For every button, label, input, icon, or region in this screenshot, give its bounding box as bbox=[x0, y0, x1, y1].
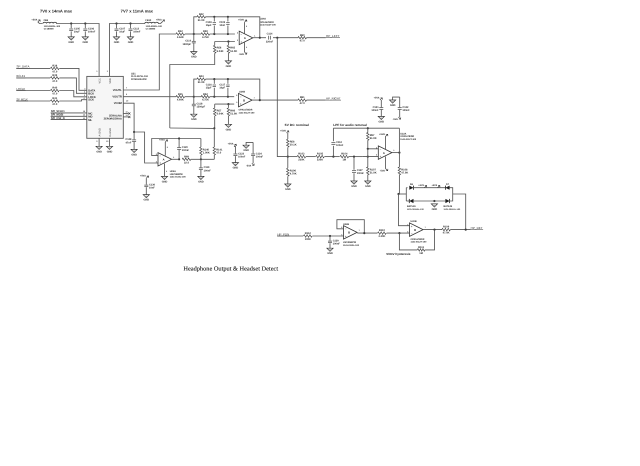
svg-text:47.0: 47.0 bbox=[52, 70, 58, 73]
wire BCLK1 to R39 bbox=[16, 77, 50, 79]
resistor R56 bbox=[213, 45, 223, 53]
node LPF3 bbox=[367, 156, 369, 158]
power flag +5VA (divider) bbox=[280, 129, 289, 133]
svg-text:47.0: 47.0 bbox=[300, 102, 306, 105]
wire A-GND pin bbox=[98, 138, 100, 146]
power rail 2 title bbox=[121, 8, 154, 13]
wire to C129 bbox=[329, 236, 331, 241]
svg-text:1: 1 bbox=[173, 156, 174, 159]
resistor R103 bbox=[297, 153, 306, 162]
resistor R105 bbox=[316, 153, 325, 162]
svg-text:ZEROR/ZEROA: ZEROR/ZEROA bbox=[104, 118, 122, 121]
node VCOM ref bbox=[213, 127, 215, 129]
junction bbox=[367, 127, 369, 129]
svg-text:+: + bbox=[240, 40, 242, 44]
svg-text:PCM5102APW: PCM5102APW bbox=[131, 78, 147, 81]
net label SPI_MOSI bbox=[51, 114, 64, 117]
svg-text:100nF: 100nF bbox=[336, 144, 344, 147]
svg-text:2: 2 bbox=[107, 70, 109, 73]
svg-text:10uF: 10uF bbox=[119, 31, 125, 34]
ground (U23A) bbox=[161, 176, 167, 183]
junction bbox=[129, 22, 131, 24]
svg-text:1500pF: 1500pF bbox=[182, 43, 191, 46]
wire C112 to node LPF1 bbox=[332, 146, 334, 157]
ground (C110) bbox=[191, 52, 197, 59]
ferrite bead FB6 bbox=[43, 19, 61, 31]
op-amp U24B bbox=[236, 93, 254, 106]
junction bbox=[213, 78, 215, 80]
svg-text:7V0 x 14mA max: 7V0 x 14mA max bbox=[40, 8, 73, 13]
ground (C119) bbox=[198, 176, 204, 183]
wire R35 to node R1 bbox=[185, 96, 194, 98]
ground (C122) bbox=[390, 100, 396, 107]
resistor R66 bbox=[227, 108, 237, 116]
svg-text:U22B: U22B bbox=[411, 220, 417, 223]
wire VOUTL to R32 bbox=[123, 34, 176, 90]
capacitor C122 bbox=[398, 106, 410, 112]
wire D6 to D7 rail bbox=[413, 187, 445, 189]
wire R97 to U22A -in bbox=[368, 140, 379, 149]
node hyst bbox=[398, 232, 400, 234]
op-amp U22A labels bbox=[400, 132, 417, 141]
wire D7 to right bracket bbox=[449, 188, 452, 194]
svg-text:D6: D6 bbox=[410, 183, 414, 186]
svg-text:47.0: 47.0 bbox=[216, 152, 222, 155]
wire R141 to out rail bbox=[213, 155, 215, 159]
ground (C123) bbox=[232, 163, 238, 170]
svg-text:R110: R110 bbox=[379, 229, 386, 232]
svg-text:-5VA: -5VA bbox=[246, 164, 252, 167]
wire R50 to U24A -in bbox=[210, 33, 235, 35]
svg-text:GND: GND bbox=[128, 41, 134, 44]
op-amp U23A labels bbox=[170, 170, 187, 178]
svg-text:30.1K: 30.1K bbox=[290, 144, 297, 147]
wire L feedback rail a bbox=[194, 17, 197, 34]
wire L feedback rail b bbox=[206, 17, 260, 38]
svg-text:4: 4 bbox=[166, 170, 168, 173]
svg-text:6: 6 bbox=[407, 231, 408, 234]
ground (C130) bbox=[143, 195, 149, 202]
svg-text:GND: GND bbox=[390, 104, 396, 107]
svg-text:R41: R41 bbox=[52, 97, 57, 100]
wire C107 to gnd bbox=[116, 31, 118, 37]
svg-text:+5VA: +5VA bbox=[374, 96, 380, 99]
op-amp U23B bbox=[341, 226, 359, 239]
svg-text:HP_RIGHT: HP_RIGHT bbox=[326, 96, 341, 100]
wire U23B out bbox=[357, 232, 377, 234]
capacitor C114 bbox=[266, 33, 274, 44]
wire R65 to gnd bbox=[227, 53, 229, 61]
svg-text:100nF: 100nF bbox=[371, 109, 379, 112]
wire node R1 to R52 bbox=[194, 96, 201, 98]
DAC IC U21 PCM5102A bbox=[87, 70, 149, 143]
wire C122 to -5VA bbox=[399, 110, 401, 117]
svg-text:A-GND: A-GND bbox=[99, 128, 102, 136]
svg-text:−: − bbox=[240, 33, 242, 37]
wire to R65 bbox=[227, 42, 229, 46]
wire R feedback rail a bbox=[194, 79, 197, 97]
svg-text:100K: 100K bbox=[305, 238, 311, 241]
wire clamp out down bbox=[453, 194, 466, 230]
wire clamp left bracket bbox=[405, 188, 407, 201]
resistor R40 bbox=[51, 87, 60, 96]
svg-text:SCK: SCK bbox=[88, 99, 94, 102]
wire C114 to R60 bbox=[273, 37, 298, 39]
wire R56 to VCOM rail bbox=[170, 53, 215, 128]
svg-text:U23A: U23A bbox=[170, 170, 176, 173]
wire VCOM ref rail bbox=[170, 127, 215, 129]
svg-text:7: 7 bbox=[359, 229, 360, 232]
wire C121 to gnd bbox=[380, 110, 382, 117]
wire C109 to rail bbox=[227, 26, 229, 35]
node clamp in bbox=[397, 193, 399, 195]
wire R66 to gnd bbox=[227, 116, 229, 124]
power flag +5VA (U24A) bbox=[238, 19, 247, 23]
svg-text:LMV358IPW: LMV358IPW bbox=[170, 173, 184, 176]
svg-text:51.0K: 51.0K bbox=[370, 137, 377, 140]
op-amp U24B labels bbox=[239, 90, 256, 114]
capacitor C108 bbox=[206, 21, 216, 27]
svg-text:5: 5 bbox=[407, 223, 408, 226]
wire to C130 bbox=[145, 178, 147, 184]
op-amp U22B bbox=[407, 223, 425, 236]
svg-text:+3V3: +3V3 bbox=[418, 184, 424, 187]
svg-text:−: − bbox=[345, 227, 347, 231]
svg-text:3: 3 bbox=[376, 154, 377, 157]
junction bbox=[70, 22, 72, 24]
text 5V DC nominal bbox=[285, 123, 309, 127]
net label SP_DATA bbox=[16, 65, 30, 69]
svg-text:6.04K: 6.04K bbox=[217, 112, 224, 115]
svg-text:+5VA: +5VA bbox=[156, 18, 162, 21]
svg-text:6: 6 bbox=[236, 94, 237, 97]
op-amp U22A bbox=[376, 146, 394, 159]
wire to C123 bbox=[234, 146, 235, 153]
svg-text:+: + bbox=[411, 224, 413, 228]
svg-text:15pF: 15pF bbox=[206, 24, 212, 27]
capacitor C110 bbox=[182, 40, 195, 46]
svg-text:2: 2 bbox=[376, 146, 377, 149]
svg-text:GND: GND bbox=[191, 118, 197, 121]
net label HP_LEFT bbox=[326, 34, 340, 38]
diode D6 (bottom) bbox=[409, 199, 413, 203]
svg-text:7: 7 bbox=[254, 97, 255, 100]
net label SP_MCLK bbox=[16, 97, 28, 101]
junction bbox=[433, 200, 435, 202]
svg-text:1141-0112T-100: 1141-0112T-100 bbox=[400, 138, 417, 141]
net label LRCLK bbox=[16, 87, 25, 91]
capacitor C113 bbox=[129, 27, 141, 33]
resistor R35 bbox=[176, 93, 185, 102]
net label HP_RIGHT bbox=[326, 96, 341, 100]
wire C113 to gnd bbox=[130, 31, 132, 37]
wire LRCLK to R40 bbox=[16, 90, 50, 92]
power flag +3V3 (right) bbox=[431, 184, 440, 188]
power flag +5VA (U23A) bbox=[159, 138, 168, 142]
wire U24A out bbox=[253, 37, 266, 39]
svg-text:47.0K: 47.0K bbox=[443, 232, 450, 235]
wire HP_PDN to R112 bbox=[277, 235, 303, 237]
svg-text:GND: GND bbox=[351, 185, 357, 188]
svg-text:OPA1678IDR: OPA1678IDR bbox=[239, 109, 253, 112]
power flag -5VA (C124) bbox=[246, 163, 254, 167]
resistor R50 bbox=[201, 30, 210, 39]
resistor R39 bbox=[51, 74, 60, 83]
svg-text:-5VA: -5VA bbox=[239, 53, 245, 56]
wire U24A V- bbox=[244, 42, 246, 52]
junction bbox=[227, 78, 229, 80]
wire R104 to node LPF2 bbox=[349, 156, 363, 158]
wire R110 to U22B -in bbox=[387, 232, 410, 234]
op-amp U23A bbox=[156, 153, 174, 166]
power flag +5VA (C123) bbox=[228, 143, 237, 147]
svg-text:1141-0110L-100: 1141-0110L-100 bbox=[343, 244, 360, 247]
wire U23A out bbox=[172, 158, 178, 160]
svg-text:100nF: 100nF bbox=[333, 243, 341, 246]
svg-text:R32: R32 bbox=[178, 30, 183, 33]
ground (C121) bbox=[378, 116, 384, 123]
wire R112 to U23B +in bbox=[312, 235, 343, 237]
capacitor C109 bbox=[219, 21, 229, 27]
svg-text:A: A bbox=[383, 152, 385, 155]
svg-text:1110-500DL-100: 1110-500DL-100 bbox=[146, 25, 163, 28]
wire hyst down bbox=[399, 233, 417, 250]
svg-text:R60: R60 bbox=[300, 34, 305, 37]
diode D7 (bottom) bbox=[445, 199, 449, 203]
svg-text:VDD: VDD bbox=[109, 78, 112, 84]
wire node to clamp bbox=[399, 193, 407, 195]
power flag +5VA (U22A) bbox=[379, 133, 388, 137]
wire C128 to gnd bbox=[133, 142, 135, 149]
wire node DIV to R106 bbox=[287, 157, 289, 168]
svg-text:6.04K: 6.04K bbox=[217, 50, 224, 53]
resistor R109 bbox=[442, 226, 451, 235]
svg-text:GND: GND bbox=[233, 167, 239, 170]
wire C123 to gnd bbox=[234, 156, 236, 163]
svg-text:47.0: 47.0 bbox=[52, 80, 58, 83]
wire U22A out bbox=[392, 152, 400, 154]
wire out rail vertical bbox=[398, 128, 400, 167]
junction bbox=[115, 22, 117, 24]
wire C105 to gnd bbox=[70, 31, 72, 37]
ground (C118) bbox=[191, 114, 197, 121]
node HP_DET bbox=[433, 229, 435, 231]
capacitor C105 bbox=[69, 27, 80, 33]
wire R32 to node L1 bbox=[185, 33, 194, 35]
wire SPI_SCLK1 to U21 bbox=[51, 112, 87, 114]
svg-text:VCC: VCC bbox=[99, 78, 102, 83]
svg-text:3: 3 bbox=[237, 39, 238, 42]
svg-text:HP_DET: HP_DET bbox=[471, 226, 483, 230]
wire detect tap down bbox=[277, 38, 288, 157]
diode D6 (top) bbox=[409, 183, 413, 190]
ground (R66) bbox=[225, 124, 231, 131]
svg-text:22.0: 22.0 bbox=[184, 161, 190, 164]
svg-text:GND: GND bbox=[144, 199, 150, 202]
wire to C124 bbox=[252, 142, 254, 153]
svg-text:VOUTR: VOUTR bbox=[112, 96, 121, 99]
junction bbox=[465, 229, 467, 231]
svg-text:OPA1678IDR: OPA1678IDR bbox=[411, 238, 425, 241]
svg-text:GND: GND bbox=[114, 41, 120, 44]
svg-text:-5VA: -5VA bbox=[393, 118, 399, 121]
wire U24A V+ bbox=[244, 22, 246, 34]
ground (C105) bbox=[68, 37, 74, 44]
svg-text:B: B bbox=[243, 99, 245, 102]
svg-text:+: + bbox=[379, 155, 381, 159]
svg-text:LPF for audio removal: LPF for audio removal bbox=[333, 123, 367, 127]
junction bbox=[227, 40, 229, 42]
svg-text:−: − bbox=[240, 95, 242, 99]
svg-text:47.0K: 47.0K bbox=[401, 171, 408, 174]
svg-text:D-GND: D-GND bbox=[109, 128, 112, 137]
net label HP_PDN bbox=[277, 232, 289, 236]
junction bbox=[84, 22, 86, 24]
svg-text:R69: R69 bbox=[184, 155, 189, 158]
power flag -5VA (U24A) bbox=[239, 52, 247, 56]
svg-text:100nF: 100nF bbox=[357, 172, 365, 175]
resistor R111 bbox=[417, 246, 425, 255]
op-amp U24A bbox=[237, 31, 255, 44]
svg-text:7: 7 bbox=[425, 226, 426, 229]
capacitor C106 bbox=[83, 27, 95, 33]
resistor R41 bbox=[51, 97, 60, 106]
wire C108 to rail bbox=[213, 26, 215, 35]
svg-text:GND: GND bbox=[379, 120, 385, 123]
ground (C106) bbox=[82, 37, 88, 44]
svg-text:1M: 1M bbox=[419, 252, 423, 255]
ground (C128) bbox=[131, 149, 137, 156]
wire node L1 to C110 bbox=[193, 34, 195, 41]
junction bbox=[227, 16, 229, 18]
svg-text:GND: GND bbox=[162, 180, 168, 183]
svg-text:A: A bbox=[244, 37, 246, 40]
power flag +5VA (C121) bbox=[374, 96, 383, 100]
wire node to U22A +in bbox=[362, 156, 378, 158]
wire R111 to out bbox=[425, 230, 435, 250]
junction bbox=[178, 137, 180, 139]
svg-text:OPA1678IDR: OPA1678IDR bbox=[400, 135, 414, 138]
svg-text:2: 2 bbox=[237, 32, 238, 35]
resistor R44 bbox=[197, 75, 206, 84]
svg-text:5V DC nominal: 5V DC nominal bbox=[285, 123, 309, 127]
svg-text:10: 10 bbox=[126, 100, 129, 103]
svg-text:7: 7 bbox=[126, 87, 128, 90]
capacitor C129 bbox=[328, 239, 340, 245]
svg-text:4: 4 bbox=[246, 46, 248, 49]
wire U23A V- to gnd bbox=[164, 164, 166, 177]
wire R40 to U21 LRCLK pin bbox=[59, 91, 86, 97]
svg-text:U23B: U23B bbox=[343, 223, 349, 226]
svg-text:GND: GND bbox=[107, 150, 113, 153]
svg-text:Headphone Output & Headset Det: Headphone Output & Headset Detect bbox=[183, 265, 278, 272]
wire rail to C112 bbox=[332, 128, 334, 141]
svg-text:GND: GND bbox=[226, 128, 232, 131]
wire ZEROR stub bbox=[123, 116, 128, 118]
text LPF for audio removal bbox=[333, 123, 367, 127]
power flag +3V3 (left) bbox=[418, 184, 427, 188]
wire R109 to HP_DET bbox=[450, 229, 470, 231]
capacitor C118 bbox=[192, 103, 206, 109]
svg-text:+: + bbox=[240, 102, 242, 106]
svg-text:GND: GND bbox=[432, 208, 438, 211]
svg-text:+5VA: +5VA bbox=[238, 19, 244, 22]
resistor R97 bbox=[367, 132, 377, 140]
svg-text:R61: R61 bbox=[300, 96, 305, 99]
svg-text:−: − bbox=[159, 154, 161, 158]
svg-text:220K: 220K bbox=[317, 159, 323, 162]
svg-text:R50: R50 bbox=[203, 30, 208, 33]
resistor R38 bbox=[51, 65, 60, 74]
resistor R65 bbox=[227, 45, 237, 53]
wire to C119 bbox=[200, 159, 202, 167]
wire VCOM to U23A +in bbox=[134, 132, 158, 163]
ferrite bead FB10 bbox=[145, 19, 163, 31]
op-amp U24A labels bbox=[260, 18, 277, 27]
wire to R66 bbox=[227, 104, 229, 108]
resistor R57 bbox=[213, 108, 223, 116]
net label HP_DET bbox=[471, 226, 484, 230]
ground (R107) bbox=[365, 181, 371, 188]
svg-text:B: B bbox=[414, 229, 416, 232]
svg-text:+5VA: +5VA bbox=[140, 175, 146, 178]
wire C124 to -5VA bbox=[252, 156, 254, 163]
wire to C105 bbox=[70, 24, 72, 29]
svg-text:5: 5 bbox=[341, 233, 342, 236]
wire D-GND pin bbox=[109, 138, 111, 146]
junction VCOM bbox=[133, 131, 135, 133]
svg-text:GND: GND bbox=[96, 150, 102, 153]
text 50mV hysteresis bbox=[386, 252, 410, 256]
svg-text:-5VA: -5VA bbox=[380, 170, 386, 173]
wire VCOM pin down bbox=[123, 103, 134, 132]
wire to C121 bbox=[380, 100, 382, 107]
svg-text:47.0: 47.0 bbox=[52, 103, 58, 106]
svg-text:C114: C114 bbox=[267, 33, 273, 36]
wire to C116 bbox=[213, 79, 215, 84]
junction bbox=[227, 96, 229, 98]
svg-text:R109: R109 bbox=[443, 226, 450, 229]
wire to C128 bbox=[133, 132, 135, 139]
ground (C113) bbox=[127, 37, 133, 44]
no-connect ZEROL bbox=[128, 112, 130, 114]
svg-text:GND: GND bbox=[226, 65, 232, 68]
svg-text:1121-0011DL-100: 1121-0011DL-100 bbox=[444, 208, 461, 211]
svg-text:220K: 220K bbox=[298, 159, 304, 162]
svg-text:VOUTL: VOUTL bbox=[113, 89, 122, 92]
svg-text:GND: GND bbox=[131, 153, 137, 156]
capacitor C112 bbox=[331, 141, 343, 147]
svg-text:51.0K: 51.0K bbox=[370, 171, 377, 174]
capacitor C127 bbox=[352, 169, 364, 175]
resistor R107 bbox=[367, 167, 377, 175]
wire FB10 to +5VA bbox=[158, 22, 162, 24]
wire U22A V- bbox=[385, 157, 387, 169]
power flag +5VA (C130) bbox=[140, 175, 149, 179]
resistor R60 bbox=[298, 34, 307, 43]
power flag -5VA (C122) bbox=[393, 117, 401, 121]
wire node R1 to C118 bbox=[193, 97, 195, 104]
capacitor C117 bbox=[219, 83, 229, 89]
svg-text:GND: GND bbox=[365, 185, 371, 188]
wire to C122 bbox=[399, 97, 401, 107]
node LPF1 bbox=[332, 156, 334, 158]
svg-text:BAT54S: BAT54S bbox=[444, 205, 453, 208]
wire R feedback rail b bbox=[206, 79, 260, 100]
power net +5VA (left rail) bbox=[40, 8, 73, 13]
svg-text:GND: GND bbox=[285, 188, 291, 191]
wire C110 to gnd bbox=[193, 43, 195, 52]
